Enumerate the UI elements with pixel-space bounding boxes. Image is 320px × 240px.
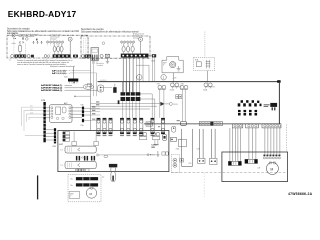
small pill connector below casing	[172, 126, 176, 132]
wire vertical bus A	[90, 56, 92, 131]
svg-text:47W58666-2A: 47W58666-2A	[288, 192, 313, 196]
relay K1A dashed box	[194, 57, 215, 70]
diode symbol on bus	[160, 102, 164, 106]
optional pcb dashed box	[171, 154, 179, 172]
svg-text:S1PH: S1PH	[173, 104, 178, 106]
terminal X1M outside box2	[152, 54, 156, 57]
wires strip F down	[265, 128, 280, 156]
fuse F2B box1	[57, 46, 60, 52]
motor M2P circle	[170, 62, 176, 68]
wire box2 down 5	[135, 58, 137, 97]
wires strips D down	[230, 128, 241, 161]
relay contact circle	[26, 38, 29, 41]
label block inside box1 right	[50, 34, 61, 41]
terminal circles left of strip	[44, 55, 47, 58]
plug connector X60A single	[161, 119, 164, 133]
relay coil K3R (oval)	[83, 84, 93, 89]
pump M2P box	[162, 57, 183, 73]
wire L1 field	[22, 107, 44, 126]
wire box2 to X1M	[149, 55, 152, 57]
unit casing top edge	[98, 81, 280, 83]
fuse F2B box2	[127, 46, 130, 52]
svg-text:-- 4.8: -- 4.8	[172, 78, 176, 80]
unit casing bottom edge (right part)	[144, 123, 279, 125]
reactor connector 3	[210, 158, 217, 164]
arrow mark	[97, 154, 100, 156]
A1P connector stubs above relay row	[72, 141, 76, 145]
dashed drop wire	[203, 173, 205, 197]
wire L3 field	[27, 114, 44, 122]
tap mark on loop	[180, 158, 184, 162]
A1P edge connectors left	[63, 132, 70, 141]
callout circle small	[102, 42, 105, 45]
dashed leads box2 left	[83, 38, 88, 54]
svg-text:principal: principal	[50, 37, 57, 40]
earth symbol below box2	[107, 58, 109, 62]
wire pump down	[173, 73, 175, 83]
svg-text:A4P 5.0,5.3 (1): A4P 5.0,5.3 (1)	[52, 72, 66, 75]
terminal strip box1 left (dark)	[14, 55, 26, 58]
wire to functional earth	[100, 154, 156, 156]
fuse F1B box2	[122, 46, 125, 52]
svg-text:L3: L3	[31, 112, 33, 114]
capacitor symbol in pump box	[177, 69, 181, 71]
wires strip E down	[249, 128, 256, 159]
svg-text:N=: N=	[71, 185, 73, 187]
fuse F3B box2	[131, 46, 134, 52]
svg-text:X2M: X2M	[64, 76, 68, 78]
terminal circle right of block	[100, 54, 103, 57]
wire earth down box2	[140, 41, 142, 53]
svg-text:A4P 5.0,5.1 (1): A4P 5.0,5.1 (1)	[52, 69, 66, 72]
plug X12A in A1P	[152, 132, 156, 136]
wire pair 3 down	[212, 129, 216, 159]
wire pair 2 down	[200, 129, 204, 159]
A4P small circles	[56, 117, 58, 119]
svg-text:salida: salida	[12, 43, 16, 45]
wires casing to fuse blocks	[123, 82, 133, 92]
relay coil symbol	[206, 60, 211, 69]
box: normal power supply (dashed)	[81, 36, 150, 58]
wires X3A right	[84, 108, 90, 120]
wire L1 box2 down	[122, 58, 124, 93]
labels under X40A group	[120, 135, 143, 136]
wire X1M down pair	[152, 57, 154, 82]
wire earth down	[69, 41, 71, 54]
wire N box2 down	[132, 58, 134, 93]
wires X2M to X3M	[46, 130, 54, 140]
interface block (tall rect)	[91, 48, 99, 61]
svg-text:R1T: R1T	[152, 155, 155, 157]
unit casing right edge	[278, 82, 280, 124]
plus node	[73, 82, 75, 84]
terminal strip row A4	[199, 121, 222, 125]
low voltage dashed boundary	[171, 172, 286, 174]
earth terminal block (dark)	[113, 87, 116, 93]
plug X8A	[180, 85, 184, 89]
terminal circle box1 bottom left	[11, 55, 14, 58]
connector column X3A (black segments)	[82, 107, 84, 110]
functional earth symbol	[157, 151, 159, 154]
small terminal block	[31, 55, 34, 58]
wires X2M to A4P	[46, 108, 50, 118]
wire box2 down 7	[142, 58, 144, 82]
transformer TR1 (dark pair)	[76, 156, 78, 161]
note: power supply 2 header text	[81, 28, 139, 33]
box1 edge connector	[85, 55, 88, 58]
wire box2 down 6	[139, 58, 141, 100]
wire X7A down	[160, 89, 164, 118]
wire L2 field	[24, 111, 44, 131]
wires below fuse blocks	[123, 101, 140, 118]
wire vertical C	[96, 73, 98, 96]
fuse leads	[55, 43, 62, 54]
terminal strip box2 left (dark)	[85, 55, 92, 58]
wire N field	[29, 117, 44, 120]
corner junction blob	[277, 80, 280, 83]
svg-text:conexión a: conexión a	[97, 63, 105, 65]
plug X21A below casing	[170, 83, 174, 87]
svg-text:L1: L1	[31, 106, 33, 108]
terminal block X3M (bar)	[54, 128, 56, 143]
edge connector below row2	[76, 169, 85, 172]
pump assembly dashed box	[68, 175, 101, 202]
ticks below bar	[70, 82, 78, 84]
svg-text:EKHBRD-ADY17: EKHBRD-ADY17	[8, 9, 77, 19]
disconnect switch terminals row (box1)	[47, 41, 64, 43]
plug X7A	[158, 85, 162, 89]
legend symbol row 2	[238, 110, 257, 116]
svg-text:X3M: X3M	[52, 146, 56, 148]
dashed field wire to relay	[204, 32, 206, 58]
earth wire bottom left	[37, 175, 39, 199]
pump motor M1P	[90, 186, 93, 189]
compressor terminal row	[263, 155, 280, 159]
plug connector X50A single	[151, 119, 154, 133]
earth terminal circle box1 right	[68, 37, 72, 41]
terminal strip right E	[246, 124, 259, 128]
earth block right of strip	[73, 55, 78, 58]
label block inside box1 left	[19, 33, 39, 38]
small oval part	[104, 155, 108, 157]
terminal strip row A1	[146, 122, 152, 126]
fuse F1B box1	[53, 46, 56, 52]
wires A4P to X3A column	[71, 108, 82, 118]
pump terminal bar 2 (dark)	[76, 183, 98, 186]
diamond node	[81, 157, 83, 159]
wire node line	[74, 95, 91, 97]
svg-text:X2M: X2M	[41, 100, 45, 102]
svg-text:3~: 3~	[163, 64, 165, 66]
wire U-loop reactor	[182, 129, 193, 167]
legend right cluster	[264, 105, 270, 106]
dashed boundary right vertical	[285, 124, 287, 151]
svg-text:adecuados: adecuados	[7, 33, 19, 35]
earth terminal circle box2	[139, 37, 143, 41]
wire vertical through H2P	[73, 67, 75, 82]
small connector (2)	[87, 83, 91, 86]
callout circle (1) on casing	[137, 75, 142, 80]
fuse block row 1 (dark)	[121, 92, 141, 95]
dashed stubs below terminals	[48, 43, 63, 45]
svg-text:la unidad: la unidad	[97, 65, 103, 67]
wire relay down	[207, 71, 209, 83]
pump info box	[69, 192, 80, 199]
svg-text:L2: L2	[31, 109, 33, 111]
plug connector stack X30A group (3)	[97, 119, 112, 133]
svg-text:4.2: 4.2	[102, 177, 104, 179]
capacitor pill	[162, 134, 166, 140]
contact dots	[13, 38, 14, 39]
wire X8A down	[182, 89, 185, 121]
wire vertical B	[93, 57, 95, 96]
transformer TR2 (dark pair)	[84, 156, 86, 161]
plug X11A in A1P	[139, 132, 143, 136]
contactor K1M	[179, 139, 187, 147]
pcb A4P box	[50, 105, 72, 123]
bus wires horizontal	[91, 102, 161, 104]
A4P inner relay	[56, 107, 61, 114]
svg-text:4.8: 4.8	[257, 167, 260, 169]
plug X22A below casing	[204, 83, 208, 87]
svg-text:Sólo para instalaciones de ali: Sólo para instalaciones de alimentación …	[81, 31, 139, 34]
wire jog box2 bundle	[136, 65, 149, 82]
connector X6A pair	[176, 95, 179, 99]
fuse holder F1U	[109, 164, 117, 167]
wire dashed link box1	[31, 34, 46, 36]
indicator circle	[169, 102, 172, 105]
labels under X30A group	[97, 135, 113, 136]
terminal circle box2 left	[81, 55, 84, 58]
svg-text:L1 L2 L3: L1 L2 L3	[100, 80, 106, 82]
terminal block X2M (bar)	[43, 102, 45, 142]
A4P terminals left	[51, 107, 71, 119]
svg-text:A4P/EKRP1HBAA (3): A4P/EKRP1HBAA (3)	[41, 89, 62, 92]
svg-text:M: M	[270, 167, 273, 171]
wire L2 box2 down	[126, 58, 128, 93]
short wire	[100, 87, 112, 89]
connector bar X1A (dark ends)	[228, 161, 241, 165]
field wires left (light)	[22, 107, 44, 135]
terminal strip X1M box1 (dark)	[53, 54, 71, 57]
terminal strip right F	[262, 124, 281, 128]
note: right column text box2	[133, 33, 144, 40]
svg-text:1~: 1~	[70, 196, 72, 198]
dashed wire in box1	[25, 44, 27, 54]
compressor motor M1C	[266, 162, 278, 174]
box: kWh rate power supply (dashed)	[7, 35, 88, 58]
connector bar X2A (dark ends)	[245, 159, 258, 163]
terminal block with switch	[105, 54, 109, 57]
pcb A1P box	[58, 131, 169, 172]
relay row 1 (rounded)	[65, 146, 96, 153]
reactor connector 2	[198, 158, 205, 163]
relay row 2 (rounded)	[65, 161, 96, 168]
legend symbol row 1	[238, 100, 262, 106]
note: power supply 1 header text	[7, 27, 80, 35]
terminal circle	[27, 55, 30, 58]
wire bend to strips	[140, 94, 155, 118]
fuse F3B box1	[60, 46, 63, 52]
thermistor symbol	[147, 154, 149, 156]
wire from box1 right edge	[88, 55, 91, 57]
connector capsule X9A	[98, 85, 104, 92]
connector X5A right of A1P	[170, 137, 176, 141]
terminal S1S circle	[12, 34, 15, 37]
X3A wires extended	[91, 108, 101, 120]
svg-text:7.4: 7.4	[60, 150, 62, 152]
disconnect switch terminals row (box2)	[121, 41, 135, 43]
pump terminal bar 1 (dark)	[76, 177, 98, 180]
plug on casing line	[180, 122, 186, 126]
fuse contacts marks	[19, 41, 24, 43]
terminal strip X1M box2 (dark)	[121, 54, 149, 58]
wire horiz links	[74, 70, 91, 72]
svg-text:N=: N=	[71, 179, 73, 181]
svg-text:*: *	[10, 59, 11, 62]
callout circle (2) on casing	[161, 75, 166, 80]
terminal strip right D2	[232, 124, 242, 128]
fuse F1 box1	[19, 46, 22, 51]
relay contact rect	[196, 62, 201, 67]
dash-dot wire	[63, 70, 74, 72]
svg-text:A1P: A1P	[59, 143, 63, 146]
compressor unit box	[222, 152, 288, 182]
noise filter blocks	[162, 152, 165, 155]
wire loop field	[25, 134, 44, 136]
transformer TR3 (dark pair)	[91, 156, 93, 161]
wire L3 box2 down	[129, 58, 131, 93]
A4P inner part	[62, 107, 66, 113]
plug connector stack X40A group (4)	[120, 119, 143, 133]
terminal strip segment (black bar)	[68, 79, 78, 82]
fuse block row 2 (dark)	[121, 97, 141, 101]
svg-text:7.4: 7.4	[60, 165, 62, 167]
svg-text:M: M	[172, 64, 174, 67]
connection arrows box1	[33, 41, 43, 44]
label marks on bus	[92, 101, 99, 119]
svg-text:INV.: INV.	[151, 147, 155, 149]
dashed wire	[64, 35, 74, 37]
